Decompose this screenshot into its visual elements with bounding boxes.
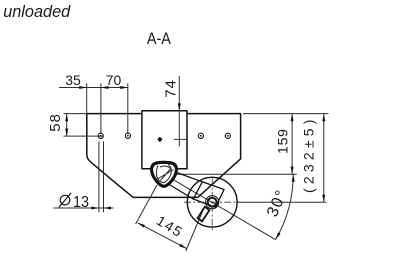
- svg-text:(232±5): (232±5): [301, 115, 317, 193]
- svg-text:74: 74: [163, 79, 180, 98]
- svg-text:unloaded: unloaded: [3, 3, 71, 21]
- svg-text:70: 70: [106, 72, 122, 88]
- svg-text:35: 35: [65, 72, 81, 88]
- svg-text:159: 159: [274, 128, 290, 154]
- svg-text:A-A: A-A: [147, 29, 172, 48]
- svg-text:13: 13: [73, 194, 89, 211]
- svg-text:58: 58: [47, 113, 64, 132]
